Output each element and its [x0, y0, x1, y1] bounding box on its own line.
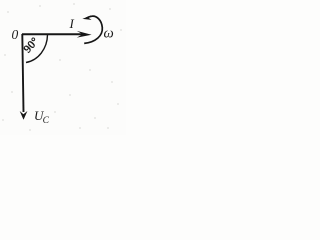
- wire: phasor Uc vertical line: [22, 34, 23, 112]
- arrowhead of Uc: [20, 111, 28, 120]
- svg-text:0: 0: [12, 27, 19, 42]
- scan noise speckles: [3, 4, 122, 131]
- omega rotation arrow arc: [84, 16, 102, 43]
- wire: phasor I horizontal line: [22, 33, 83, 35]
- arrowhead of omega arc: [82, 15, 91, 20]
- arrowhead of I: [77, 31, 92, 38]
- 90 degree arc: [26, 35, 48, 63]
- svg-text:C: C: [43, 116, 50, 126]
- svg-text:ω: ω: [104, 26, 114, 42]
- svg-text:I: I: [69, 16, 75, 31]
- background: [0, 0, 126, 135]
